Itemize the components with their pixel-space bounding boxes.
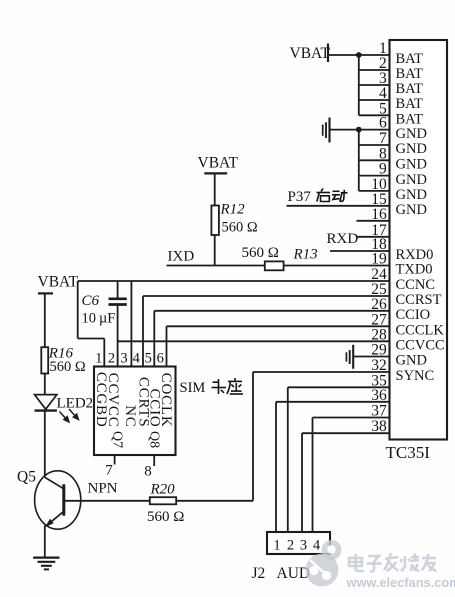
watermark elecfans logo — [306, 540, 342, 587]
wire stub pin 16 — [357, 220, 390, 222]
wire stub pin 2 — [359, 69, 390, 71]
svg-text:VBAT: VBAT — [198, 155, 239, 172]
wire VBAT/CCNC line pin 24 to SIM — [78, 280, 390, 282]
power VBAT terminal (middle) — [198, 155, 239, 174]
wire pin 36 to J2 pin 1 — [276, 401, 390, 403]
wire pin 25 down to SIM pin 4 — [142, 296, 144, 367]
svg-text:CCCLK: CCCLK — [396, 323, 445, 339]
wire stub pin 7 — [359, 144, 390, 146]
svg-text:NPN: NPN — [88, 481, 118, 497]
svg-text:3: 3 — [120, 350, 127, 366]
pin 7 of SIM socket — [105, 455, 114, 479]
svg-text:TC35I: TC35I — [386, 443, 431, 462]
svg-text:GND: GND — [396, 157, 427, 173]
wire stub pin 10 — [359, 190, 390, 192]
LED LED2 — [35, 395, 94, 422]
connector J2 body — [267, 532, 330, 554]
wire LED2 to Q5 collector — [44, 411, 46, 478]
node P37 qidong label — [288, 189, 348, 206]
pin 1 BAT of U1 — [379, 40, 423, 67]
svg-text:BAT: BAT — [396, 81, 424, 97]
svg-text:3: 3 — [300, 538, 307, 554]
svg-text:Q5: Q5 — [17, 469, 36, 486]
wire BAT bus vertical pins 1-5 — [358, 55, 360, 115]
pin 25 CCRST of U1 — [371, 281, 441, 308]
wire pin 27 CCCLK — [167, 325, 390, 327]
pin 8 GND of U1 — [379, 145, 427, 172]
wire pin 18 RXD0 — [330, 250, 390, 252]
svg-text:J2: J2 — [252, 565, 266, 582]
svg-text:CCRST: CCRST — [396, 292, 442, 308]
wire stub pin 9 — [359, 175, 390, 177]
wire RXD to pin 17 — [357, 236, 390, 238]
wire stub pin 5 — [359, 114, 390, 116]
svg-text:560 Ω: 560 Ω — [50, 359, 86, 375]
pin 17 NC of U1 — [371, 222, 387, 239]
pin 24 CCNC of U1 — [371, 266, 435, 293]
svg-text:GND: GND — [396, 353, 427, 369]
svg-text:5: 5 — [145, 350, 152, 366]
svg-text:P37: P37 — [288, 189, 312, 205]
svg-text:LED2: LED2 — [57, 396, 94, 412]
svg-text:4: 4 — [133, 350, 141, 366]
pin 10 GND of U1 — [371, 176, 427, 203]
pin 6 GND of U1 — [379, 115, 427, 142]
transistor Q5 — [17, 469, 118, 530]
wire pin 38 to J2 pin 3 — [302, 432, 390, 434]
pin 35 NC of U1 — [371, 372, 387, 389]
svg-text:1: 1 — [95, 350, 102, 366]
svg-text:R20: R20 — [150, 482, 176, 498]
wire ground to pin 29 — [353, 356, 389, 358]
wire VBAT to pin 1 — [328, 54, 390, 56]
svg-text:BAT: BAT — [396, 51, 424, 67]
wire pin 24 down to SIM pin 3 — [130, 281, 132, 367]
svg-text:CCVCC: CCVCC — [105, 373, 121, 428]
capacitor C6 — [82, 293, 127, 309]
svg-text:1: 1 — [273, 538, 280, 554]
svg-text:8: 8 — [144, 464, 152, 480]
svg-text:SYNC: SYNC — [396, 368, 435, 384]
wire stub pin 4 — [359, 99, 390, 101]
pin 38 NC of U1 — [371, 418, 387, 435]
ground symbol at Q5 — [33, 558, 59, 570]
wire Q5 emitter to ground — [44, 526, 46, 558]
svg-text:R12: R12 — [220, 202, 246, 218]
wire pin 27 down to SIM pin 6 — [166, 326, 168, 366]
svg-text:CCNC: CCNC — [396, 277, 436, 293]
wire C6 top from VBAT line — [117, 281, 119, 298]
resistor R13 — [265, 247, 318, 271]
pin 28 CCVCC of U1 — [371, 326, 444, 353]
watermark text dianzifashaoyou — [349, 553, 437, 572]
svg-text:SIM: SIM — [180, 380, 206, 396]
node junction GND bus at pin 6 — [356, 127, 362, 133]
pin 36 NC of U1 — [371, 387, 387, 404]
pin 9 GND of U1 — [379, 161, 427, 188]
svg-text:560 Ω: 560 Ω — [147, 509, 184, 525]
svg-text:R13: R13 — [293, 247, 318, 263]
wire jog horizontal — [78, 338, 105, 340]
ground symbol at pin 6 — [323, 118, 330, 143]
svg-text:6: 6 — [157, 350, 164, 366]
pin 7 GND of U1 — [379, 130, 427, 157]
svg-text:GND: GND — [396, 126, 427, 142]
svg-text:560 Ω: 560 Ω — [222, 220, 258, 236]
wire stub pin 3 — [359, 84, 390, 86]
wire Q5 base to R20 — [64, 500, 150, 502]
svg-text:IXD: IXD — [168, 249, 195, 265]
svg-text:4: 4 — [313, 538, 321, 554]
wire C6 down to SIM pin 2 — [117, 306, 119, 367]
pin 3 BAT of U1 — [379, 70, 423, 97]
pin 32 SYNC of U1 — [371, 357, 434, 384]
power VBAT terminal (top) — [290, 44, 331, 63]
SIM socket body — [94, 367, 176, 456]
wire VBAT rail to R16 — [44, 293, 46, 347]
wire R20 to SYNC corner — [176, 500, 253, 502]
wire R16 to LED2 — [44, 374, 46, 395]
svg-text:VBAT: VBAT — [290, 45, 331, 62]
wire VBAT jog down — [77, 281, 79, 339]
svg-text:AUD: AUD — [277, 565, 311, 582]
svg-text:www.elecfans.com: www.elecfans.com — [346, 575, 455, 590]
pin 16 NC of U1 — [371, 206, 387, 223]
svg-text:10 µF: 10 µF — [82, 311, 116, 327]
wire P37 to pin 15 — [287, 205, 390, 207]
resistor R20 — [150, 482, 177, 505]
pin 4 BAT of U1 — [379, 85, 423, 112]
svg-text:BAT: BAT — [396, 66, 424, 82]
pin 2 BAT of U1 — [379, 55, 423, 82]
svg-text:RXD: RXD — [327, 231, 359, 247]
node junction BAT bus at pin 1 — [356, 52, 362, 58]
wire SYNC vertical — [252, 372, 254, 501]
svg-text:VBAT: VBAT — [38, 274, 79, 291]
pin 5 BAT of U1 — [379, 100, 423, 127]
resistor R12 — [211, 202, 245, 236]
wire pin 28 CCVCC — [118, 340, 390, 342]
pin 26 CCIO of U1 — [371, 296, 430, 323]
pin 27 CCCLK of U1 — [371, 311, 444, 338]
resistor R16 — [41, 346, 73, 374]
svg-text:BAT: BAT — [396, 96, 424, 112]
svg-text:COCLK: COCLK — [158, 373, 174, 428]
IC U1 TC35I body — [386, 40, 448, 462]
connector J2 label AUD — [252, 565, 311, 582]
svg-text:CCVCC: CCVCC — [396, 338, 445, 354]
svg-text:7: 7 — [105, 463, 113, 479]
pin 8 of SIM socket — [144, 455, 154, 480]
wire R12 to IXD line — [214, 235, 216, 266]
svg-text:GND: GND — [396, 202, 427, 218]
svg-text:Q7: Q7 — [110, 431, 125, 448]
wire pin 25 CCRST — [143, 295, 390, 297]
SIM socket label SIM ka zuo — [180, 378, 244, 396]
svg-text:560 Ω: 560 Ω — [242, 245, 279, 261]
wire pin 26 down to SIM pin 5 — [153, 311, 155, 367]
wire pin 32 SYNC — [253, 371, 390, 373]
ground symbol at pin 29 — [346, 345, 353, 369]
wire stub pin 8 — [359, 159, 390, 161]
wire pin 26 CCIO — [154, 310, 389, 312]
wire IXD to pin 19 — [167, 265, 390, 267]
wire pin 37 to J2 pin 4 — [313, 417, 390, 419]
svg-text:TXD0: TXD0 — [396, 262, 433, 278]
pin 19 TXD0 of U1 — [371, 251, 432, 278]
svg-text:CCIO: CCIO — [396, 307, 431, 323]
svg-text:GND: GND — [396, 141, 427, 157]
wire jog down to SIM pin 1 — [103, 339, 105, 367]
svg-text:C6: C6 — [82, 293, 100, 309]
wire VBAT to R12 — [214, 173, 216, 205]
pin 15 GND of U1 — [371, 191, 427, 218]
wire GND bus vertical pins 6-10 — [358, 130, 360, 191]
svg-text:2: 2 — [108, 350, 115, 366]
svg-text:Q8: Q8 — [147, 431, 162, 448]
wire ground to pin 6 — [330, 129, 390, 131]
pin 29 GND of U1 — [371, 342, 427, 369]
svg-text:GND: GND — [396, 187, 427, 203]
svg-text:GND: GND — [396, 172, 427, 188]
pin 37 NC of U1 — [371, 403, 387, 420]
power VBAT terminal (left) — [38, 274, 79, 294]
pin 18 RXD0 of U1 — [371, 236, 433, 263]
wire pin 35 to J2 pin 2 — [288, 386, 390, 388]
svg-text:2: 2 — [287, 538, 294, 554]
